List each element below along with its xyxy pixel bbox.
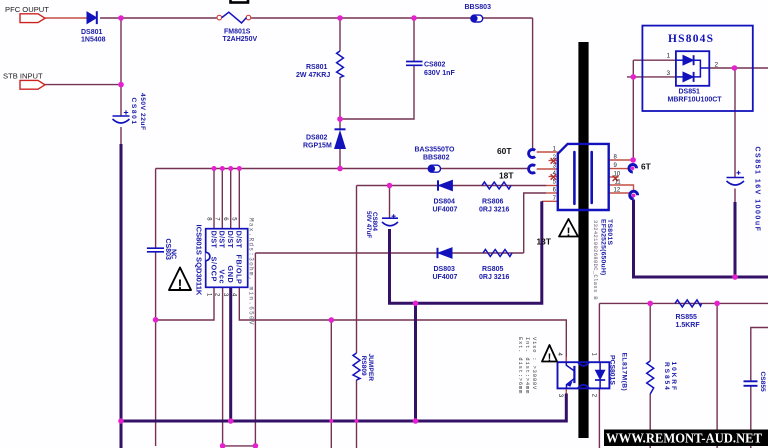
wire IC pin6 — [230, 169, 232, 229]
svg-text:D/ST: D/ST — [226, 231, 235, 249]
opto phototransistor — [566, 362, 574, 388]
svg-text:13T: 13T — [537, 237, 552, 247]
resistor RS855 — [675, 300, 702, 307]
wire stub transformer pin1 — [537, 151, 558, 153]
node bus primary return — [413, 418, 419, 424]
svg-text:2: 2 — [715, 62, 719, 69]
svg-text:Int. dist:>4mm: Int. dist:>4mm — [524, 337, 530, 394]
nc mark X transformer pin2 — [551, 158, 557, 164]
svg-text:D/ST: D/ST — [235, 231, 244, 249]
IC pin names D/ST top row rotated — [209, 231, 243, 249]
svg-text:JUMPER: JUMPER — [367, 354, 374, 382]
wire right edge cap lower — [750, 386, 752, 448]
WIRES-THICK — [121, 144, 768, 448]
IC pin names bottom row rotated — [209, 255, 243, 285]
svg-text:PFC OUPUT: PFC OUPUT — [5, 5, 49, 14]
svg-text:RGP15M: RGP15M — [303, 142, 332, 149]
fuse holder black box top — [231, 0, 249, 3]
svg-text:332421002680DC_Class B: 332421002680DC_Class B — [592, 220, 598, 300]
wire secondary output line y=303.4 — [599, 302, 768, 304]
diode DS803 — [438, 248, 453, 258]
node inside curl pin9 — [631, 166, 635, 170]
capacitor CS803 — [147, 248, 164, 252]
wire HS804S pin2 output — [709, 67, 768, 69]
svg-text:Vcc: Vcc — [218, 270, 227, 285]
wire Vcc winding net down — [254, 253, 256, 448]
svg-text:RS855: RS855 — [676, 314, 698, 321]
diode DS802 — [335, 129, 346, 148]
svg-text:450V 22uF: 450V 22uF — [139, 93, 146, 131]
pin numbers transformer left — [553, 147, 557, 203]
watermark www.remont-aud.net — [604, 430, 768, 447]
diode DS851 bottom half — [676, 72, 694, 82]
wire HS804S pin1 lead — [633, 59, 676, 61]
node sense branch — [714, 301, 720, 307]
wire RS809 net lower — [356, 380, 358, 448]
svg-text:DS851: DS851 — [679, 89, 701, 96]
node PFC-DS801 junction — [118, 15, 124, 21]
pin numbers opto rotated — [556, 353, 597, 398]
node CS803 S/OCP — [153, 317, 159, 323]
wire stub transformer pin8 — [609, 159, 633, 161]
node bottom box left — [220, 443, 226, 448]
capacitor CS802 — [406, 62, 423, 66]
svg-text:1.5KRF: 1.5KRF — [676, 322, 701, 329]
transformer TS801S body — [558, 144, 609, 210]
node HS804S pin2 — [732, 65, 738, 71]
svg-text:FM801S: FM801S — [224, 29, 251, 36]
wire PFC bulk rail thick — [120, 144, 123, 448]
nc mark X transformer pin10 — [613, 176, 619, 182]
pin numbers transformer right — [614, 155, 622, 194]
wire stub transformer pin6 — [546, 192, 558, 194]
wire stub transformer pin11 — [609, 185, 634, 191]
wire RS801 to node — [339, 77, 341, 130]
svg-text:HS804S: HS804S — [668, 33, 714, 45]
pin numbers IC bottom 1234 rotated — [205, 293, 236, 297]
wire opto pin1 riser — [598, 303, 600, 362]
node CS802 tap — [411, 15, 417, 21]
pin numbers IC top 8765 rotated — [205, 217, 236, 221]
opto hop arc top — [578, 362, 589, 366]
wire CS802 top — [413, 18, 415, 62]
svg-text:STB INPUT: STB INPUT — [3, 72, 43, 81]
svg-text:PCS801S: PCS801S — [609, 355, 616, 385]
wire drain line y=168.5 — [156, 168, 529, 170]
resistor RS809 JUMPER — [353, 353, 360, 380]
svg-text:10: 10 — [614, 172, 621, 178]
diode DS801 — [87, 11, 97, 24]
wire stub transformer pin12 — [609, 192, 630, 194]
svg-text:MBRF10U100CT: MBRF10U100CT — [668, 97, 723, 104]
wire secondary winding return — [634, 200, 768, 278]
svg-text:!: ! — [567, 225, 571, 239]
svg-text:UF4007: UF4007 — [433, 274, 458, 281]
resistor RS854 — [647, 361, 654, 394]
svg-text:GND: GND — [226, 266, 235, 284]
wire 13T riser to pin6 — [524, 193, 546, 253]
node bus FB branch — [329, 419, 333, 423]
node RS801 tap — [337, 15, 343, 21]
svg-text:2W 47KRJ: 2W 47KRJ — [296, 72, 330, 79]
svg-text:EL817M(B): EL817M(B) — [621, 353, 628, 392]
IC ICS801S box — [206, 229, 248, 288]
node IC pin6 drain — [228, 166, 233, 171]
svg-text:BAS3550TO: BAS3550TO — [415, 147, 456, 154]
wire stub transformer pin3 — [537, 168, 558, 170]
svg-text:BBS803: BBS803 — [465, 4, 492, 11]
IC pin1 notch — [206, 252, 210, 260]
wire stub opto pin4 — [565, 357, 567, 362]
node DS802 drain — [337, 166, 343, 172]
svg-text:DS801: DS801 — [81, 29, 103, 36]
HS804S inner box DS851 — [676, 51, 709, 86]
svg-text:S/OCP: S/OCP — [209, 257, 218, 282]
node inside curl pin12 — [632, 194, 636, 198]
node FB branch — [329, 317, 335, 323]
wire CS801 top — [120, 18, 122, 116]
ferrite bead BBS803 — [471, 15, 483, 22]
wire stub transformer pin4 — [549, 176, 558, 178]
wire 18T line y=185.5 — [357, 185, 547, 187]
wire CS851 bottom lead — [734, 189, 736, 204]
svg-text:WWW.REMONT-AUD.NET: WWW.REMONT-AUD.NET — [606, 431, 762, 446]
svg-text:CS851 16V 1000uF: CS851 16V 1000uF — [754, 147, 761, 233]
wire right edge cap branch — [751, 328, 768, 382]
svg-text:!: ! — [548, 352, 552, 364]
svg-text:630V 1nF: 630V 1nF — [424, 70, 455, 77]
opto LED — [595, 362, 605, 388]
wire IC pin1 to S/OCP net — [156, 287, 214, 320]
wire PFC rail corner down to 60T curl — [532, 18, 534, 150]
wire IC pin7 — [221, 169, 223, 229]
opto hop arc bottom — [578, 385, 589, 389]
svg-text:!: ! — [178, 276, 183, 292]
capacitor CS855 right edge — [744, 381, 758, 386]
warning triangle near opto — [542, 345, 557, 364]
svg-text:0RJ 3216: 0RJ 3216 — [479, 206, 509, 213]
node bus RS809 — [355, 419, 359, 423]
wire stub transformer pin10 — [609, 176, 619, 178]
node CS851 bottom — [732, 274, 738, 280]
wire RS854 lower — [649, 394, 651, 448]
wire FB branch down — [330, 320, 332, 448]
wire IC pin2 Vcc down — [222, 287, 224, 448]
svg-text:12: 12 — [614, 188, 621, 194]
node HS804S pin3 — [631, 74, 637, 80]
wire CS803 lower — [155, 252, 157, 446]
node bottom box right — [253, 443, 259, 448]
svg-text:11: 11 — [615, 180, 622, 186]
wire opto pin2 down — [598, 388, 600, 448]
svg-text:CS855: CS855 — [759, 372, 766, 392]
warning triangle under transformer — [559, 219, 578, 239]
wire CS851 negative lead thick — [734, 202, 737, 277]
svg-text:DS803: DS803 — [434, 266, 456, 273]
wire stub transformer pin9 — [609, 168, 629, 170]
warning triangle near IC — [169, 268, 191, 293]
node bus left corner — [118, 418, 124, 424]
transformer secondary winding bar — [590, 152, 593, 203]
svg-text:18T: 18T — [499, 171, 514, 181]
wire CS803 upper — [155, 169, 157, 249]
wire stub opto pin3 — [565, 388, 567, 394]
svg-text:50V 47uF: 50V 47uF — [365, 211, 372, 238]
winding curl pin1 — [529, 150, 536, 158]
svg-text:CS802: CS802 — [424, 62, 446, 69]
svg-text:RS806: RS806 — [482, 199, 504, 206]
winding curl pin3 — [529, 165, 536, 173]
wire CS804 top lead — [389, 186, 391, 219]
wire 13T line y=253 — [255, 252, 523, 254]
wire stub transformer pin2 — [549, 160, 558, 162]
capacitor CS801 — [113, 110, 130, 123]
wire IC pin5 — [238, 169, 240, 229]
svg-text:FB/OLP: FB/OLP — [235, 255, 244, 285]
svg-text:ICS801S SQD3011K: ICS801S SQD3011K — [195, 225, 204, 296]
resistor RS801 — [337, 51, 344, 78]
svg-text:3: 3 — [667, 70, 671, 77]
ferrite bead BBS802 — [428, 165, 440, 172]
winding curl pin9 6T — [629, 165, 637, 173]
diode DS804 — [438, 180, 452, 190]
svg-text:D/ST: D/ST — [218, 231, 227, 249]
wire DS802 to drain line — [339, 149, 341, 169]
optocoupler PCS801S box — [558, 362, 610, 388]
svg-text:CS801: CS801 — [130, 98, 137, 126]
wire RS809 net upper — [356, 186, 358, 354]
wire primary return branch — [414, 303, 417, 421]
resistor RS806 — [482, 182, 511, 189]
wire bottom box top edge — [223, 445, 256, 447]
svg-text:0RJ 3216: 0RJ 3216 — [479, 274, 509, 281]
svg-text:CS803: CS803 — [164, 239, 171, 261]
wire PFC connector to DS801 — [45, 17, 87, 19]
svg-text:1N5408: 1N5408 — [81, 37, 106, 44]
HS804S block outline — [642, 26, 752, 111]
wire PFC rail y=18 — [100, 17, 217, 19]
capacitor CS804 — [382, 214, 398, 226]
svg-text:UF4007: UF4007 — [433, 206, 458, 213]
svg-text:RS854: RS854 — [663, 362, 670, 392]
svg-text:1: 1 — [667, 53, 671, 60]
svg-text:60T: 60T — [497, 146, 512, 156]
WIRES-RED-STUBS — [45, 18, 634, 395]
node STB junction — [118, 82, 124, 88]
svg-text:D/ST: D/ST — [209, 231, 218, 249]
wire snubber node to CS802 bottom — [340, 65, 414, 119]
wire CS851 top lead — [734, 68, 736, 177]
wire HS804S vertical to pin8 — [632, 60, 634, 160]
winding curl pin12 — [630, 191, 638, 199]
svg-text:BBS802: BBS802 — [423, 154, 450, 161]
node IC pin8 drain — [212, 166, 217, 171]
wire CS804 return thick — [390, 201, 542, 303]
svg-text:Viso : >3000V: Viso : >3000V — [531, 337, 537, 390]
diode DS851 top half — [676, 55, 694, 65]
wire IC pin8 — [213, 169, 215, 229]
node CS804 top — [387, 183, 393, 189]
wire stub transformer pin5 — [546, 185, 558, 187]
connector STB INPUT — [20, 80, 45, 89]
svg-text:Max.Rds:3ohm, min.650V: Max.Rds:3ohm, min.650V — [248, 218, 255, 326]
svg-text:RS805: RS805 — [482, 266, 504, 273]
capacitor CS851 — [727, 171, 745, 185]
node RS854 top — [647, 301, 653, 307]
node bus IC GND — [228, 418, 234, 424]
wire STB input — [45, 84, 121, 86]
wire right sense branch — [716, 303, 718, 448]
resistor RS805 — [483, 250, 512, 257]
svg-text:EFD2525(650uH): EFD2525(650uH) — [600, 219, 607, 275]
node snubber mid — [337, 116, 343, 122]
connector PFC OUTPUT — [20, 14, 45, 23]
wire HS804S pin3 lead — [627, 76, 676, 78]
wire RS801 branch — [339, 18, 341, 51]
transformer primary winding bar — [573, 152, 576, 204]
svg-text:Ext. dist:>6mm: Ext. dist:>6mm — [517, 337, 523, 394]
svg-text:T2AH250V: T2AH250V — [223, 36, 258, 43]
node primary return corner — [413, 301, 419, 307]
node transformer pin8 — [630, 157, 636, 163]
svg-text:RS809: RS809 — [360, 356, 367, 376]
svg-text:DS804: DS804 — [434, 199, 456, 206]
wire RS854 upper — [649, 303, 651, 361]
node IC pin7 drain — [220, 166, 225, 171]
svg-text:DS802: DS802 — [306, 135, 328, 142]
wire stub transformer pin7 — [542, 200, 558, 202]
node IC pin5 drain — [237, 166, 242, 171]
svg-text:RS801: RS801 — [306, 64, 328, 71]
svg-text:6T: 6T — [641, 162, 652, 172]
fuse FM801S — [217, 12, 251, 23]
wire IC pin3 GND — [229, 287, 232, 421]
wire GND bus — [121, 394, 566, 422]
transformer core bar — [578, 42, 588, 438]
wire IC pin4 FB line — [239, 287, 566, 362]
wire CS801 bottom lead — [120, 127, 122, 144]
nc mark X transformer pin4 — [551, 174, 557, 180]
wire DS851 internal join — [694, 60, 710, 77]
